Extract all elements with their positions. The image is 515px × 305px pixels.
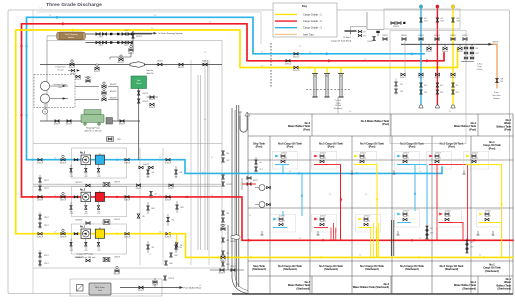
pump bay box row2	[72, 187, 127, 217]
valve cluster 278VCP	[395, 82, 398, 86]
svg-text:025VCL: 025VCL	[450, 77, 456, 79]
svg-text:(Starboard): (Starboard)	[365, 268, 379, 271]
riser valves in WB2 port	[420, 83, 423, 87]
gray drop from valve row	[404, 39, 406, 72]
svg-text:150: 150	[211, 157, 214, 159]
svg-text:VCP: VCP	[227, 160, 230, 162]
valve 021VCP	[70, 63, 74, 66]
cargo pump No.2 discharge tank	[95, 192, 104, 201]
svg-text:150: 150	[261, 66, 264, 68]
svg-text:Man: Man	[313, 76, 316, 78]
svg-text:M41VCP: M41VCP	[114, 273, 120, 275]
svg-text:29VCT: 29VCT	[44, 225, 49, 227]
svg-text:Vacuum Pump: Vacuum Pump	[54, 84, 68, 86]
svg-text:207VCD: 207VCD	[457, 51, 464, 53]
valve on slop line 2	[169, 184, 173, 187]
svg-text:0xxVCT: 0xxVCT	[403, 152, 409, 154]
valve 013VCD	[452, 18, 455, 22]
cargo pump No.2 suction valve 3	[74, 196, 78, 198]
svg-text:0xxVCT: 0xxVCT	[364, 221, 370, 223]
svg-text:0xx: 0xx	[98, 248, 101, 250]
ballast eductor 1	[259, 185, 265, 191]
valve 029VCP	[95, 67, 99, 70]
svg-text:(Starboard): (Starboard)	[463, 287, 477, 290]
svg-text:(Port): (Port)	[256, 146, 263, 149]
svg-text:(Starboard): (Starboard)	[405, 268, 419, 271]
valve 261VTC	[132, 34, 135, 38]
svg-text:103VCP: 103VCP	[149, 99, 155, 101]
svg-text:150: 150	[209, 22, 212, 24]
svg-text:150: 150	[204, 119, 207, 121]
svg-text:018VCP: 018VCP	[124, 236, 131, 238]
svg-text:M43: M43	[181, 207, 184, 209]
riser bottom valves	[419, 73, 423, 76]
svg-text:0xxVCT: 0xxVCT	[281, 152, 287, 154]
svg-text:004VCP: 004VCP	[165, 236, 172, 238]
cyan links No.3	[414, 165, 416, 211]
svg-text:017VCP: 017VCP	[168, 188, 174, 190]
svg-text:271VCD: 271VCD	[382, 35, 389, 37]
svg-text:150: 150	[419, 238, 422, 240]
svg-text:VCT: VCT	[260, 169, 263, 171]
svg-text:011VCT: 011VCT	[227, 184, 232, 186]
cargo pump No.1 body	[81, 229, 91, 238]
svg-text:Heater: Heater	[68, 36, 74, 39]
svg-text:(Port): (Port)	[287, 146, 294, 149]
svg-text:150: 150	[199, 285, 202, 287]
svg-text:(Starboard): (Starboard)	[485, 270, 499, 273]
valve cluster 013VCP	[147, 245, 150, 249]
svg-text:267: 267	[363, 31, 366, 33]
aux drain box outline	[70, 279, 162, 296]
svg-text:Chest: Chest	[136, 82, 142, 85]
svg-text:263VCD: 263VCD	[450, 35, 457, 37]
valve on slop line 1	[136, 184, 140, 187]
valve cluster bottom right pump room	[164, 276, 167, 280]
svg-text:27VCT: 27VCT	[44, 188, 49, 190]
svg-text:(Port): (Port)	[303, 128, 310, 131]
svg-text:To No.4: To No.4	[343, 37, 351, 39]
No.2 port red cluster	[427, 152, 452, 170]
svg-text:0xx: 0xx	[85, 248, 88, 250]
svg-text:Inert Gas: Inert Gas	[303, 32, 314, 36]
aux drain tank	[89, 283, 111, 295]
heater valve pair A1	[96, 33, 100, 36]
legend box	[273, 3, 337, 37]
stripping line	[40, 120, 81, 122]
structure line top	[37, 12, 261, 44]
No.6 stbd cyan cluster	[271, 215, 296, 233]
svg-text:VCP: VCP	[85, 176, 88, 178]
svg-text:0xxVCT: 0xxVCT	[485, 216, 491, 218]
yellow link stbd No.1	[479, 222, 502, 224]
vacuum pump 2	[40, 94, 49, 103]
valve cluster 683VCP	[222, 211, 225, 215]
svg-text:VCP: VCP	[149, 198, 152, 200]
valve 101VCP	[137, 91, 140, 95]
valve cluster M44VCP	[147, 206, 150, 210]
svg-text:0xx: 0xx	[98, 211, 101, 213]
svg-text:014: 014	[440, 85, 443, 87]
svg-text:VCP: VCP	[85, 250, 88, 252]
svg-text:M35: M35	[175, 255, 178, 257]
svg-text:260m³/h at 135 mth: 260m³/h at 135 mth	[84, 129, 101, 132]
svg-text:305: 305	[470, 242, 473, 244]
svg-text:0xxVCT: 0xxVCT	[320, 152, 326, 154]
svg-text:0xx: 0xx	[85, 211, 88, 213]
yellow riser fan No.4	[370, 228, 372, 258]
svg-text:0xxVCT: 0xxVCT	[320, 221, 326, 223]
svg-text:044VCT: 044VCT	[202, 60, 208, 62]
svg-text:Cargo Oil Tank (Port): Cargo Oil Tank (Port)	[331, 39, 352, 42]
svg-text:M50VCP: M50VCP	[110, 84, 118, 86]
vertical line x228	[227, 225, 229, 270]
svg-text:(Port): (Port)	[369, 146, 376, 149]
stripping eductor horn	[231, 235, 240, 240]
drain sight glass	[77, 285, 84, 292]
svg-text:015: 015	[441, 18, 444, 20]
svg-text:197VCP: 197VCP	[168, 278, 174, 280]
loop seal pipe	[240, 116, 247, 132]
svg-text:265VCD: 265VCD	[293, 56, 300, 58]
No.4 stbd yellow cluster	[356, 215, 381, 233]
legend cargo grade 1	[275, 13, 297, 15]
svg-text:030VCP: 030VCP	[128, 53, 135, 55]
ballast crossover box right	[390, 31, 466, 144]
svg-text:(Starboard): (Starboard)	[252, 268, 266, 271]
water ballast tank dividers port	[311, 114, 313, 136]
svg-text:28VCT: 28VCT	[44, 217, 49, 219]
svg-text:154VCP: 154VCP	[114, 257, 120, 259]
No.4 port yellow cluster	[352, 152, 377, 170]
valve M53VCP	[86, 80, 90, 83]
tank grid outline	[248, 114, 513, 294]
svg-text:0xxVCT: 0xxVCT	[360, 158, 366, 160]
valve 066VCP	[120, 120, 124, 123]
svg-text:102VCP: 102VCP	[142, 101, 148, 103]
legend cargo grade 2	[275, 20, 297, 22]
inert gas valve	[496, 78, 499, 82]
valve 195VCP	[139, 286, 143, 289]
svg-text:0xx: 0xx	[70, 248, 73, 250]
svg-text:007: 007	[155, 194, 158, 196]
svg-text:0xxVCT: 0xxVCT	[485, 210, 491, 212]
valve cluster 005VCP	[147, 170, 150, 174]
vacuum pump 1	[40, 81, 49, 90]
svg-text:152VCP: 152VCP	[75, 79, 82, 81]
svg-text:013: 013	[152, 247, 155, 249]
heater valve pair B1	[96, 41, 100, 44]
svg-text:30VCT: 30VCT	[44, 255, 49, 257]
svg-text:150: 150	[249, 215, 252, 217]
svg-text:205°C: 205°C	[99, 45, 104, 47]
svg-text:012: 012	[456, 85, 459, 87]
svg-text:0xx: 0xx	[85, 174, 88, 176]
svg-text:To Tank Cleaning System: To Tank Cleaning System	[158, 32, 183, 35]
svg-text:Water Ballast Tank (Starboard): Water Ballast Tank (Starboard)	[353, 286, 389, 289]
svg-text:VCP: VCP	[85, 213, 88, 215]
svg-text:M36: M36	[170, 263, 173, 265]
stripping pump	[81, 110, 104, 126]
svg-text:No.2: No.2	[80, 190, 86, 192]
svg-text:Purge from: Purge from	[56, 67, 66, 69]
svg-text:150: 150	[159, 157, 162, 159]
No.3 port cyan cluster	[395, 152, 420, 170]
svg-text:021VCP: 021VCP	[69, 67, 76, 69]
svg-text:System: System	[493, 97, 500, 100]
svg-text:0xxVCT: 0xxVCT	[435, 152, 441, 154]
svg-text:303: 303	[430, 228, 433, 230]
valve cluster M35VCP	[170, 253, 173, 257]
eductor	[130, 62, 145, 68]
No.5 stbd red cluster	[312, 215, 337, 233]
pressure vacuum valve mark	[239, 112, 241, 116]
pipe duct verticals	[235, 105, 237, 287]
valve 030VCP actuated	[129, 49, 133, 52]
valve 263VCD on red	[286, 59, 290, 62]
svg-text:M51VCP: M51VCP	[110, 98, 118, 100]
valve cluster M36VCP	[165, 261, 168, 265]
inert gas line	[401, 43, 493, 45]
cargo pump No.3 triple valve cluster	[70, 168, 72, 172]
svg-text:0xxVCT: 0xxVCT	[403, 210, 409, 212]
valve 270VCD	[373, 36, 376, 40]
svg-text:Three Grade Discharge: Three Grade Discharge	[46, 2, 102, 8]
manifold flange small	[376, 31, 379, 33]
deck dash line	[306, 89, 350, 91]
svg-text:017: 017	[424, 18, 427, 20]
legend inert gas	[275, 33, 297, 35]
yellow drop line No.4	[376, 165, 378, 258]
black valve stack 305VCT	[466, 238, 468, 252]
valve M41VCP	[115, 270, 119, 273]
svg-text:M46VCP: M46VCP	[76, 220, 84, 222]
heater outlet pipe bottom	[86, 42, 134, 44]
svg-text:150: 150	[159, 195, 162, 197]
valve row VCD hanging	[428, 44, 430, 47]
svg-text:101VCP: 101VCP	[142, 93, 148, 95]
svg-text:150: 150	[419, 171, 422, 173]
svg-text:(Port): (Port)	[382, 123, 389, 126]
valve 065VCP	[67, 120, 71, 123]
svg-text:(Starboard): (Starboard)	[297, 287, 311, 290]
svg-text:011VCP: 011VCP	[37, 162, 44, 164]
svg-text:0xxVCT: 0xxVCT	[435, 158, 441, 160]
valve stack 203VCD	[471, 44, 473, 60]
svg-text:(Port): (Port)	[328, 146, 335, 149]
valve cluster 092VCP	[175, 243, 178, 247]
valve 015VCD	[436, 18, 439, 22]
svg-text:VCP: VCP	[97, 250, 100, 252]
svg-text:208VCD: 208VCD	[426, 51, 433, 53]
svg-text:M53VCP: M53VCP	[85, 77, 93, 79]
valve M21VCP	[119, 58, 123, 61]
svg-text:Cargo: Cargo	[336, 102, 341, 105]
arrow yellow at 169	[168, 232, 172, 235]
svg-text:150: 150	[159, 232, 162, 234]
svg-text:VCT: VCT	[470, 247, 473, 249]
svg-text:011: 011	[172, 220, 175, 222]
manifold drop 3	[340, 68, 342, 74]
svg-text:066VCP: 066VCP	[119, 123, 126, 125]
cargo pump No.3 suction valve 2	[61, 158, 65, 161]
stripping suction line	[40, 64, 130, 66]
svg-text:VCP: VCP	[97, 213, 100, 215]
svg-text:0xxVCT: 0xxVCT	[279, 221, 285, 223]
manifold flange to No.4 port	[345, 30, 357, 32]
svg-text:065VCP: 065VCP	[66, 123, 73, 125]
svg-text:156VCP: 156VCP	[114, 182, 120, 184]
valve cluster 011VCT	[222, 182, 225, 186]
svg-text:205°C: 205°C	[124, 45, 129, 47]
No.1 port yellow cluster	[464, 152, 489, 170]
arrow cyan left riser	[25, 112, 28, 116]
red link stbd No.2	[439, 223, 463, 241]
svg-text:908: 908	[501, 79, 504, 81]
svg-text:0xxVCT: 0xxVCT	[472, 158, 478, 160]
black drop pipes boundary No.4-No.3	[390, 220, 392, 256]
vent line top	[366, 12, 368, 30]
svg-text:064VCP: 064VCP	[54, 123, 61, 125]
valve 040VCT	[158, 63, 162, 66]
cargo pump No.2 body	[81, 192, 91, 201]
svg-text:040VCT: 040VCT	[157, 61, 163, 63]
foot valve marks	[261, 231, 263, 235]
cargo pump No.3 line valve 2	[166, 158, 170, 161]
heater valve pair A2	[117, 33, 119, 35]
svg-text:150: 150	[54, 195, 57, 197]
svg-text:150: 150	[49, 15, 52, 17]
valve 064VCP	[55, 120, 59, 123]
hull bow outline	[232, 108, 248, 294]
svg-text:To No.4: To No.4	[477, 64, 483, 66]
red drop line No.5	[340, 165, 342, 241]
arrow yellow pump line	[29, 232, 33, 235]
yellow link No.1 port	[466, 165, 502, 258]
svg-text:(Port): (Port)	[448, 146, 455, 149]
svg-text:Cargo Grade - 3: Cargo Grade - 3	[303, 26, 322, 30]
valve stack 266VCD right	[464, 47, 468, 49]
valve 28VCT cluster	[39, 215, 42, 219]
svg-text:M33: M33	[227, 264, 230, 266]
valve 017VCD	[420, 18, 423, 22]
yellow pump discharge pipe	[16, 234, 513, 258]
red main loop pipe	[22, 24, 445, 197]
svg-text:VCP: VCP	[70, 176, 73, 178]
No.2 stbd red cluster	[437, 210, 462, 228]
svg-text:198VCP: 198VCP	[230, 266, 236, 268]
svg-text:AUS Drain: AUS Drain	[95, 286, 104, 289]
sea chest pipe down	[138, 89, 140, 161]
arrow red pump line	[29, 196, 33, 199]
valve cluster 687VCP	[222, 251, 225, 255]
svg-text:013VCP: 013VCP	[37, 236, 44, 238]
valve 26VCT cluster	[39, 178, 42, 182]
svg-text:018VCP: 018VCP	[124, 200, 131, 202]
valve 30VCT cluster	[39, 253, 42, 257]
valve cluster 680VCP	[222, 151, 225, 155]
svg-text:M52VCP: M52VCP	[110, 91, 118, 93]
svg-text:263VCD: 263VCD	[285, 63, 292, 65]
svg-text:66VCT: 66VCT	[253, 180, 258, 182]
svg-text:Man: Man	[325, 76, 328, 78]
svg-text:104VCP: 104VCP	[149, 107, 155, 109]
svg-text:269VCD: 269VCD	[401, 35, 408, 37]
svg-text:060VCP: 060VCP	[60, 236, 67, 238]
svg-text:0xxVCT: 0xxVCT	[320, 215, 326, 217]
svg-text:276VCP: 276VCP	[393, 26, 399, 28]
svg-text:0xx: 0xx	[70, 211, 73, 213]
valve 091VCP on yellow main	[221, 256, 225, 259]
arrow red left riser	[20, 112, 23, 116]
svg-text:Oil Tank: Oil Tank	[477, 69, 483, 71]
sea chest	[131, 76, 147, 89]
heater outlet pipe top	[86, 33, 153, 35]
svg-text:150: 150	[54, 158, 57, 160]
valve 102VCP	[137, 99, 140, 103]
svg-text:690VCP: 690VCP	[220, 225, 226, 227]
valve 044VCT	[203, 63, 207, 66]
svg-text:150: 150	[94, 285, 97, 287]
pump bay box row3	[72, 148, 127, 178]
svg-text:261VCD: 261VCD	[293, 70, 300, 72]
svg-text:150: 150	[364, 59, 367, 61]
svg-text:019VCL: 019VCL	[400, 77, 406, 79]
valve cluster 015VCP	[175, 245, 178, 249]
valve row VCD upper	[383, 38, 387, 41]
svg-text:(Starboard): (Starboard)	[324, 268, 338, 271]
cyan main loop pipe	[27, 17, 425, 159]
arrow red top	[62, 22, 66, 25]
svg-text:012VCP: 012VCP	[37, 200, 44, 202]
cargo pump No.2 triple valve cluster	[70, 206, 72, 210]
cargo pump No.1 suction valve 3	[74, 233, 78, 235]
pump room boundary	[47, 41, 222, 266]
svg-text:Cargo Grade - 2: Cargo Grade - 2	[303, 19, 322, 23]
valve cluster 139VCP	[137, 214, 140, 218]
cargo pump No.2 suction valve 2	[61, 196, 65, 199]
svg-text:013: 013	[457, 18, 460, 20]
valve row y168	[139, 166, 143, 169]
cargo pump No.1 suction valve 1	[38, 232, 42, 235]
heater inlet pipe	[47, 35, 58, 37]
eductor outlet	[144, 64, 222, 66]
svg-text:155VCP: 155VCP	[114, 219, 120, 221]
svg-text:Unit: Unit	[58, 86, 62, 89]
svg-text:31VCT: 31VCT	[44, 263, 49, 265]
svg-text:Tank: Tank	[98, 290, 102, 292]
tank bottom hull line	[232, 293, 513, 295]
svg-text:150: 150	[365, 194, 368, 196]
svg-text:015: 015	[180, 247, 183, 249]
arrow cyan top	[56, 16, 60, 19]
svg-text:1:25: 1:25	[40, 8, 43, 10]
svg-text:M44: M44	[152, 208, 155, 210]
slop tank cluster	[255, 160, 258, 164]
structure line y143	[33, 143, 222, 145]
svg-text:150: 150	[151, 28, 154, 30]
svg-text:Man: Man	[339, 76, 342, 78]
stripping pump outlet box	[106, 118, 113, 125]
svg-text:683: 683	[227, 213, 230, 215]
riser manifold box	[384, 9, 460, 29]
valve cluster 009VCP	[175, 170, 178, 174]
svg-text:(Port): (Port)	[489, 147, 496, 150]
vertical duct lines	[197, 75, 199, 250]
svg-text:Stripping Pump: Stripping Pump	[86, 127, 101, 130]
svg-text:203: 203	[476, 48, 479, 50]
valve 006VCT	[179, 63, 183, 66]
